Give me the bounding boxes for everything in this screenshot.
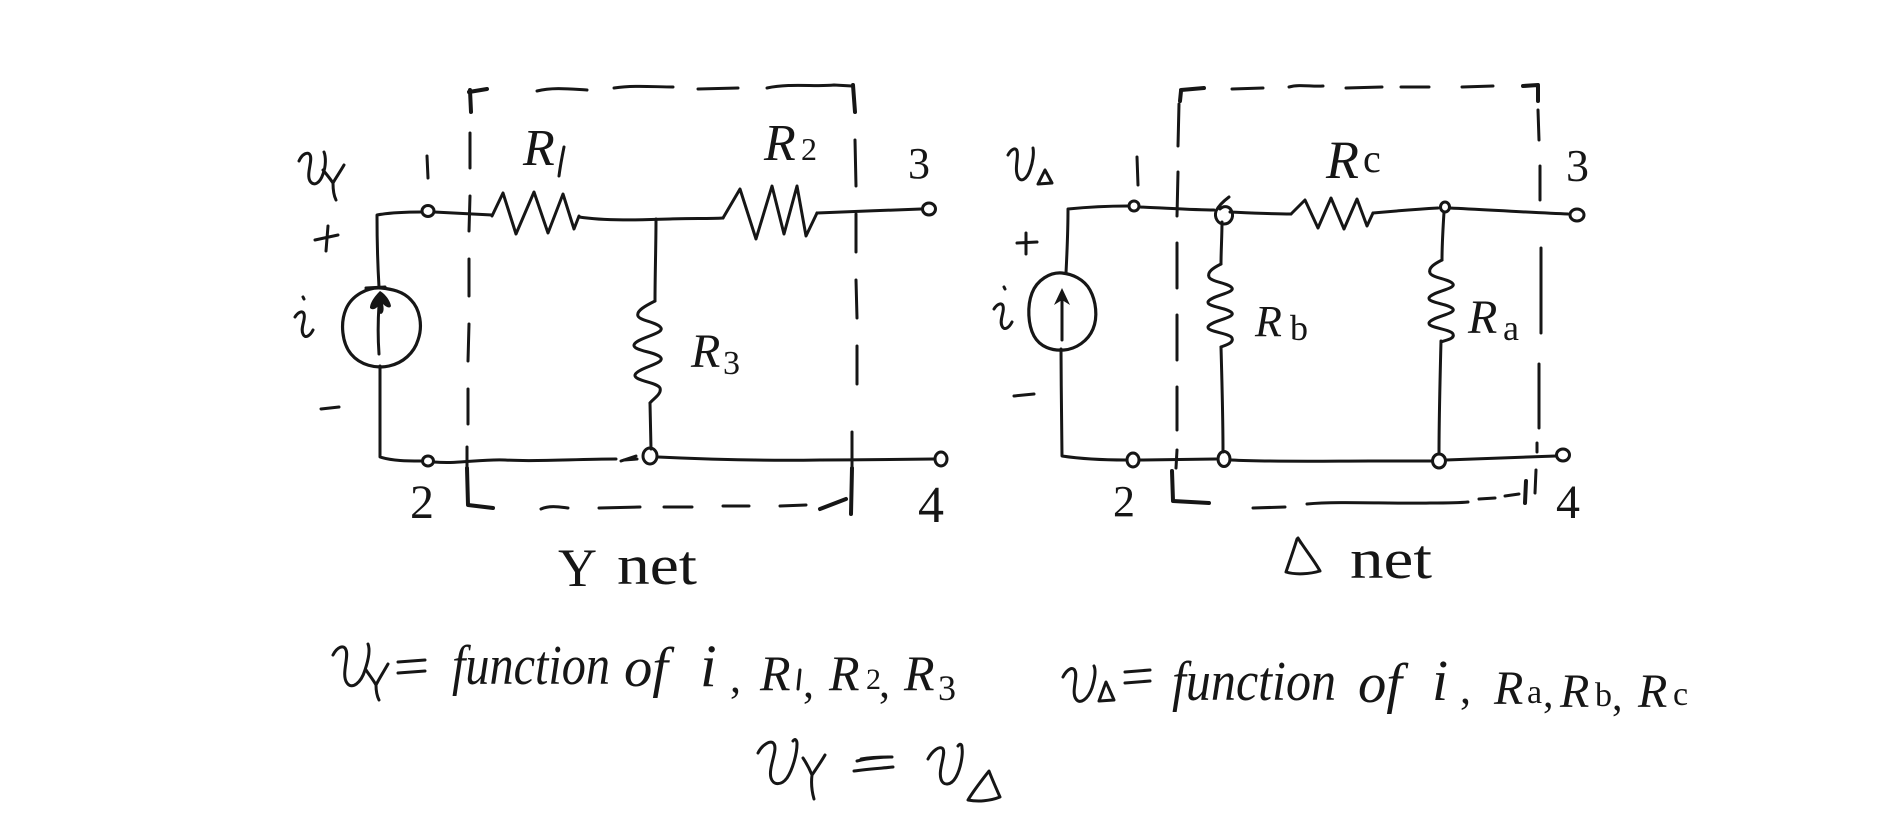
svg-text:function: function [452, 635, 610, 697]
dashed box : bottom-left corner (right box) [1172, 471, 1209, 503]
equation vY = function of i, R1, R2, R3 [333, 633, 956, 708]
junction node Ra top [1441, 202, 1450, 212]
bottom wire to node 4 [658, 457, 934, 460]
dashed box : left edge (right box) [1176, 104, 1179, 468]
current source arrow [377, 305, 381, 354]
label + (right source) [1017, 233, 1037, 254]
svg-text:3: 3 [1566, 140, 1589, 191]
svg-text:R: R [763, 115, 796, 172]
svg-text:2: 2 [410, 476, 434, 529]
resistor R3 [634, 301, 661, 403]
dashed box : bottom-left corner [467, 468, 493, 508]
svg-text:b: b [1595, 677, 1612, 714]
wire Rb to bottom [1221, 347, 1223, 452]
svg-text:R: R [690, 325, 720, 378]
node 3 terminal [923, 203, 936, 215]
resistor R1 [492, 192, 579, 234]
svg-text:i: i [700, 633, 717, 699]
wire junction to node 3 [1450, 208, 1568, 214]
dashed box : top-right corner [853, 85, 855, 112]
svg-text:i: i [1432, 648, 1448, 713]
resistor Rb vertical wire [1221, 222, 1222, 264]
bottom wire Ra to node 4 [1446, 456, 1556, 460]
wire source bottom [380, 366, 421, 461]
label vDelta [1008, 148, 1052, 184]
node 4 terminal (right) [1557, 449, 1570, 461]
dashed box : bottom edge (right box) [1253, 494, 1519, 508]
bottom wire to R3 node [434, 459, 616, 462]
dashed box : bottom-right corner [820, 468, 852, 514]
wire arrow mark [621, 456, 637, 461]
current source arrow (right) [1061, 300, 1064, 340]
wire Rc to Ra junction [1373, 208, 1438, 213]
svg-text:2: 2 [1113, 477, 1135, 526]
wire node1 to R1 [434, 212, 492, 215]
wire source top to node 1 [377, 212, 421, 287]
node Rb bottom [1218, 452, 1230, 467]
junction node (6-shaped) [1215, 197, 1232, 224]
resistor Ra vertical wire [1442, 212, 1444, 260]
svg-text:3: 3 [938, 668, 956, 708]
bottom wire to Rb node [1140, 459, 1216, 460]
svg-text:R: R [1493, 662, 1523, 715]
label - (right source) [1014, 394, 1034, 396]
dashed box Y net : top-left corner [469, 89, 487, 112]
resistor Rc [1291, 198, 1373, 229]
wire junction to R3 [655, 219, 656, 301]
label i (right) [994, 287, 1012, 329]
svg-text:,: , [803, 658, 814, 707]
dashed box : bottom edge [541, 505, 806, 509]
svg-text:2: 2 [801, 131, 817, 167]
dashed box : top edge [537, 85, 852, 91]
dashed box : right edge (right box) [1535, 110, 1541, 493]
label Delta net [1286, 538, 1320, 574]
label + (source polarity) [315, 226, 338, 251]
svg-text:a: a [1503, 308, 1519, 348]
svg-text:c: c [1363, 136, 1381, 181]
node R3 bottom [643, 448, 657, 464]
dashed box : bottom-right corner (right box) [1525, 481, 1526, 503]
svg-text:4: 4 [918, 477, 944, 534]
svg-text:,: , [879, 658, 890, 707]
svg-text:R: R [1637, 665, 1667, 718]
node 2 terminal (right) [1127, 453, 1139, 467]
svg-text:,: , [1543, 671, 1554, 717]
equation vY = vDelta [758, 740, 1000, 801]
dashed box : top edge (right box) [1232, 86, 1493, 89]
svg-text:R: R [828, 645, 860, 701]
svg-text:,: , [1460, 664, 1471, 713]
node 1 terminal (right) [1129, 201, 1139, 211]
node 3 terminal (right) [1570, 209, 1584, 221]
resistor Ra [1429, 260, 1453, 342]
svg-text:,: , [730, 653, 741, 702]
svg-text:R: R [903, 645, 935, 701]
wire right source top to node 1 [1066, 206, 1128, 273]
label i (current) [295, 297, 313, 337]
node 4 terminal [935, 452, 947, 466]
svg-text:,: , [1612, 674, 1623, 720]
svg-text:a: a [1527, 674, 1542, 711]
svg-text:R: R [1559, 665, 1589, 718]
svg-text:function: function [1172, 651, 1336, 713]
equation vDelta = function of i, Ra, Rb, Rc [1063, 648, 1688, 720]
svg-text:R: R [759, 645, 791, 701]
tick at source top [366, 287, 385, 288]
svg-text:R: R [1254, 297, 1282, 346]
wire Ra to bottom [1439, 341, 1441, 454]
wire R2 to node 3 [817, 209, 921, 213]
svg-text:R: R [1325, 130, 1359, 190]
svg-text:of: of [624, 637, 676, 699]
label - (source polarity) [321, 407, 339, 409]
current source i (left) [343, 288, 421, 367]
svg-text:net: net [617, 535, 698, 597]
dashed box : top-right corner (right box) [1523, 85, 1538, 101]
svg-text:net: net [1350, 529, 1433, 591]
dashed box : left edge [467, 133, 470, 466]
svg-text:b: b [1290, 308, 1308, 348]
wire junction to Rc [1230, 212, 1291, 214]
wire node1 to Rb junction [1140, 207, 1214, 210]
label vY [299, 152, 344, 200]
svg-text:4: 4 [1556, 476, 1580, 529]
bottom wire Rb to Ra [1231, 460, 1432, 461]
svg-text:R: R [522, 120, 555, 177]
svg-text:3: 3 [908, 139, 930, 188]
svg-text:of: of [1358, 653, 1410, 715]
node 1 terminal [422, 206, 434, 217]
node Ra bottom [1433, 454, 1446, 468]
dashed box : right edge [852, 140, 857, 466]
resistor Rb [1208, 264, 1232, 347]
current source i (right) [1029, 273, 1096, 350]
svg-text:R: R [1467, 291, 1497, 344]
wire R1 to R2 (through node for R3) [579, 217, 723, 220]
svg-text:3: 3 [723, 345, 740, 382]
label 1 tick [427, 156, 428, 178]
svg-text:c: c [1673, 676, 1688, 713]
node 2 terminal [423, 456, 434, 466]
label 1 tick (right) [1137, 157, 1138, 185]
dashed box Delta net : top-left corner [1180, 88, 1204, 101]
resistor R2 [723, 186, 817, 239]
wire R3 to bottom node [650, 403, 651, 449]
wire right source bottom [1061, 349, 1126, 460]
svg-text:Y: Y [558, 538, 597, 598]
